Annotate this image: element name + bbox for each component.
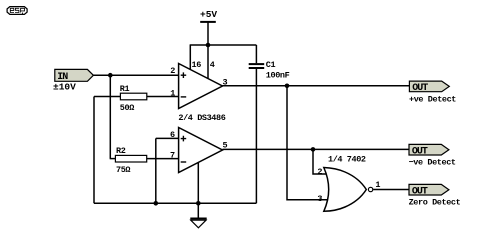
svg-text:OUT: OUT	[412, 83, 428, 94]
svg-text:R2: R2	[116, 146, 126, 156]
wire bottom ground rail	[94, 202, 256, 204]
node IN junction	[108, 73, 113, 78]
ground	[190, 203, 206, 228]
op-amp U1a comparator A triangle	[179, 64, 223, 109]
op-amp A minus input mark	[181, 96, 187, 98]
NOR gate U2 body	[324, 168, 367, 212]
wire R1 right lead to pin 1	[147, 96, 179, 98]
wire R1 left lead	[94, 96, 120, 98]
svg-text:2: 2	[170, 66, 175, 76]
svg-text:16: 16	[192, 60, 202, 70]
node +ve output junction	[285, 84, 290, 89]
port OUT flag +ve	[409, 81, 449, 92]
svg-text:1: 1	[375, 180, 380, 190]
node pin6-ground junction	[154, 201, 159, 206]
wire R1 left end down to ground rail	[93, 97, 95, 204]
svg-text:OUT: OUT	[412, 186, 428, 197]
wire comparator A output to OUT	[223, 85, 410, 87]
wire R2 left lead	[110, 158, 116, 160]
svg-text:2: 2	[317, 167, 322, 177]
wire comparator B ground pin drop	[197, 162, 199, 203]
resistor R1	[120, 93, 146, 100]
svg-text:+5V: +5V	[200, 9, 217, 20]
op-amp B plus input mark	[181, 136, 187, 142]
svg-text:+ve Detect: +ve Detect	[409, 95, 456, 105]
wire R2 right lead to pin 7	[147, 158, 179, 160]
wire +5V top rail	[190, 44, 256, 46]
svg-text:±10V: ±10V	[53, 82, 76, 93]
wire pin 6 lead	[156, 137, 179, 139]
op-amp B minus input mark	[181, 161, 187, 163]
svg-text:OUT: OUT	[412, 146, 428, 157]
svg-text:R1: R1	[120, 84, 130, 94]
svg-text:1/4 7402: 1/4 7402	[328, 154, 366, 164]
svg-text:C1: C1	[266, 60, 276, 70]
node -ve output junction	[311, 147, 316, 152]
node ground junction	[196, 201, 201, 206]
wire IN to pin 2	[93, 74, 178, 76]
op-amp A plus input mark	[181, 72, 187, 78]
svg-text:2/4 DS3486: 2/4 DS3486	[178, 113, 225, 123]
wire +ve down to NOR input 3	[287, 86, 330, 200]
capacitor C1	[249, 45, 265, 203]
svg-text:7: 7	[170, 150, 175, 160]
wire +5V down to rail	[207, 22, 209, 45]
wire pin 4 drop	[207, 45, 209, 78]
svg-text:100nF: 100nF	[266, 71, 290, 81]
svg-text:1: 1	[170, 88, 175, 98]
wire pin 6 down to ground rail	[155, 138, 157, 203]
svg-text:3: 3	[317, 194, 322, 204]
wire -ve down to NOR input 2	[313, 149, 330, 174]
resistor R2	[115, 155, 146, 162]
port OUT flag Zero	[409, 184, 449, 195]
svg-text:50Ω: 50Ω	[120, 103, 134, 113]
svg-text:−ve Detect: −ve Detect	[409, 158, 456, 168]
wire pin 16 drop	[189, 44, 191, 69]
svg-text:4: 4	[210, 60, 215, 70]
svg-text:Zero Detect: Zero Detect	[409, 198, 461, 208]
wire NOR output	[373, 189, 409, 191]
port OUT flag -ve	[409, 144, 449, 155]
wire comparator B output to OUT	[223, 148, 410, 150]
svg-text:75Ω: 75Ω	[116, 165, 130, 175]
node +5V rail junction	[206, 43, 211, 48]
port IN flag	[55, 69, 94, 81]
wire IN junction down to R2	[109, 75, 111, 158]
ESP logo	[7, 7, 27, 15]
power +5V bar symbol	[200, 21, 216, 23]
op-amp U1b comparator B triangle	[179, 128, 223, 173]
NOR gate output bubble	[368, 187, 372, 191]
